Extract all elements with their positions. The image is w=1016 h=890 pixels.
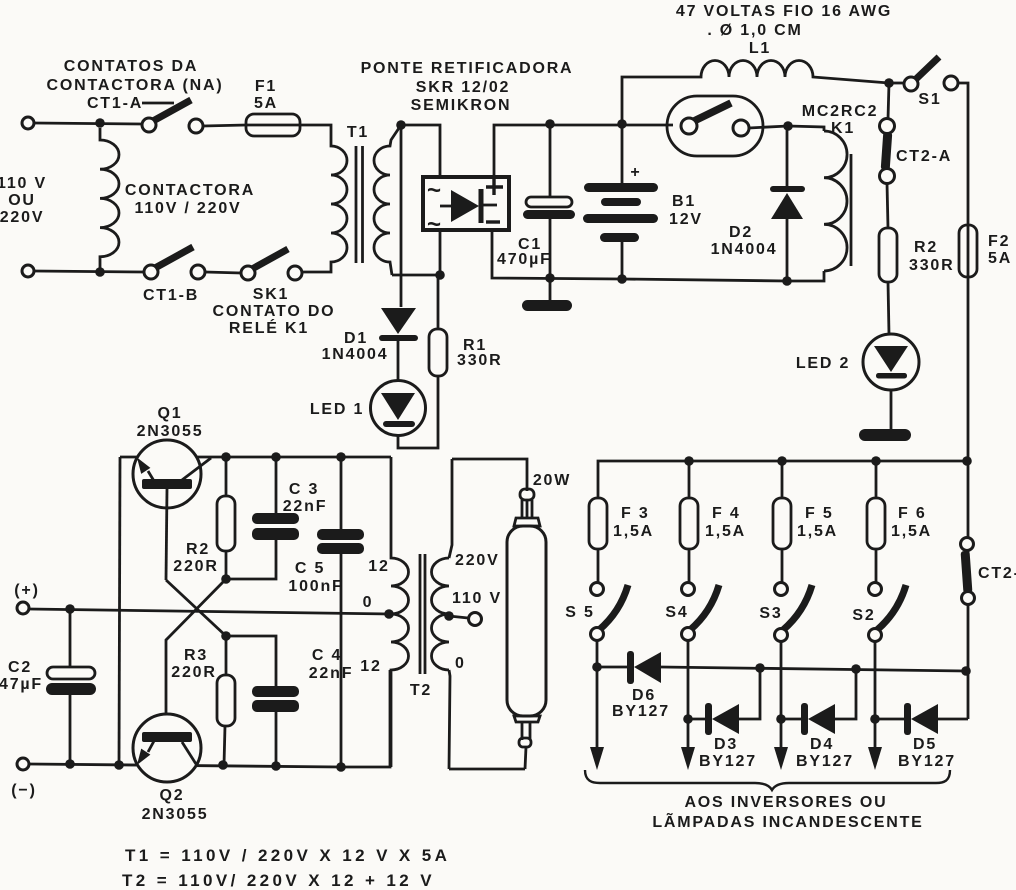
svg-text:110 V: 110 V (0, 175, 47, 192)
node C1 top (545, 119, 555, 129)
fuse F1 (246, 78, 300, 136)
svg-text:MC2RC2: MC2RC2 (802, 103, 879, 120)
brace (585, 770, 950, 790)
svg-text:22nF: 22nF (309, 665, 354, 682)
svg-text:CT1-A: CT1-A (87, 95, 143, 112)
(+) rail to T2 center tap (29, 609, 389, 614)
node C2 top (65, 604, 75, 614)
label 47 VOLTAS FIO 16 AWG / O 1,0CM / L1 (676, 3, 892, 57)
node D4 riser top (851, 664, 861, 674)
svg-text:F 5: F 5 (805, 505, 834, 522)
svg-text:D3: D3 (714, 736, 738, 753)
fuse F2 5A (959, 225, 1012, 277)
svg-text:110 V: 110 V (452, 590, 502, 607)
diode D2 1N4004 (711, 126, 805, 281)
bridge rectifier SKR12/02 (423, 177, 509, 238)
svg-text:330R: 330R (909, 257, 954, 274)
svg-text:D4: D4 (810, 736, 834, 753)
resistor R1 330R (429, 275, 502, 376)
node right vertical crossing (961, 666, 971, 676)
(+) terminal (14, 582, 39, 614)
svg-text:LED 1: LED 1 (310, 401, 364, 418)
svg-text:1,5A: 1,5A (613, 523, 654, 540)
svg-text:(−): (−) (11, 782, 36, 799)
labels T2 taps (360, 552, 502, 699)
arrow output 3 (774, 747, 788, 770)
diode D6 BY127 (612, 651, 670, 720)
diode D1 1N4004 (322, 308, 418, 381)
switch S2 (852, 583, 906, 753)
svg-text:CONTATOS DA: CONTATOS DA (64, 58, 198, 75)
svg-text:0: 0 (363, 594, 374, 611)
svg-text:47µF: 47µF (0, 676, 43, 693)
svg-text:D5: D5 (913, 736, 937, 753)
T2 secondary winding (432, 558, 450, 670)
node R2 bottom (221, 574, 231, 584)
fuse F3 1,5A (589, 498, 654, 583)
svg-text:SK1: SK1 (253, 286, 290, 303)
wire node A to bridge AC top (401, 125, 440, 177)
svg-text:R2: R2 (186, 541, 210, 558)
wire bridge AC bottom lead (439, 229, 442, 275)
svg-text:L1: L1 (749, 40, 771, 57)
transistor Q2 (133, 714, 201, 782)
wire node A down to D1 (400, 125, 403, 307)
svg-text:CT2-B: CT2-B (978, 565, 1016, 582)
svg-text:220V: 220V (0, 209, 44, 226)
svg-text:Q2: Q2 (160, 787, 185, 804)
svg-text:F 3: F 3 (621, 505, 650, 522)
node C3 top (271, 452, 281, 462)
svg-text:Q1: Q1 (158, 405, 183, 422)
wire CT2-B down to D-line (967, 538, 970, 719)
wire bottom terminal to CT1-B (34, 271, 144, 272)
fuse rail (598, 461, 968, 498)
svg-text:LED 2: LED 2 (796, 355, 850, 372)
resistor R3 220R (171, 636, 235, 765)
wire T2 220V to lamp top (452, 459, 527, 491)
node R1 top / bridge AC bottom (435, 270, 445, 280)
LED1 (310, 376, 438, 448)
ground rail from bridge minus to relay coil (492, 229, 824, 281)
svg-text:T2: T2 (410, 682, 432, 699)
switch SK1 (241, 249, 302, 280)
node T2 primary center tap (384, 609, 394, 619)
node C1 bottom on ground rail (545, 273, 555, 283)
resistor R2 220R (173, 457, 235, 579)
label Q1 2N3055 (137, 405, 204, 440)
svg-text:D6: D6 (632, 687, 656, 704)
wire T1 secondary bottom to R1 node (392, 274, 440, 277)
svg-text:CT1-B: CT1-B (143, 287, 199, 304)
wire bridge plus up to +12V rail (494, 125, 673, 177)
node C4 bottom (271, 761, 281, 771)
node S5 output (592, 662, 602, 672)
svg-text:330R: 330R (457, 352, 502, 369)
svg-text:BY127: BY127 (612, 703, 670, 720)
inductor L1 (622, 61, 889, 124)
(-) terminal (11, 758, 36, 799)
fuse F4 1,5A (680, 461, 746, 583)
switch CT1-B (144, 247, 205, 279)
fuse F6 1,5A (867, 461, 932, 583)
svg-text:D1: D1 (344, 330, 368, 347)
T1 primary winding (300, 125, 347, 272)
node C5 bottom (336, 762, 346, 772)
capacitor C3 22nF (226, 457, 327, 579)
svg-text:R3: R3 (184, 647, 208, 664)
svg-text:CONTACTORA: CONTACTORA (125, 182, 255, 199)
T2 core (419, 554, 422, 674)
svg-text:2N3055: 2N3055 (137, 423, 204, 440)
node junction top of contactor coil (95, 118, 105, 128)
label MC2RC2 K1 (802, 103, 879, 137)
capacitor C2 47uF (0, 609, 96, 764)
svg-text:BY127: BY127 (699, 753, 757, 770)
svg-text:S2: S2 (852, 607, 875, 624)
svg-text:T2 = 110V/ 220V X 12 + 12: T2 = 110V/ 220V X 12 + 12 V (122, 871, 435, 890)
node R3 bottom (218, 760, 228, 770)
svg-text:AOS INVERSORES OU: AOS INVERSORES OU (684, 794, 887, 811)
label CONTACTORA 110V / 220V (125, 182, 255, 217)
battery B1 12V (583, 125, 703, 279)
svg-text:. Ø 1,0 CM: . Ø 1,0 CM (707, 22, 802, 39)
svg-text:~: ~ (427, 177, 441, 204)
svg-text:BY127: BY127 (796, 753, 854, 770)
svg-text:SKR 12/02: SKR 12/02 (416, 79, 510, 96)
node D3 riser top (755, 663, 765, 673)
svg-text:100nF: 100nF (288, 578, 343, 595)
node F6 top (871, 456, 881, 466)
svg-text:BY127: BY127 (898, 753, 956, 770)
svg-text:20W: 20W (533, 472, 571, 489)
svg-text:470µF: 470µF (497, 251, 552, 268)
switch CT1-A (142, 100, 203, 133)
contact CT2-B (961, 538, 1016, 605)
terminal 110V bottom (22, 265, 34, 277)
node D2 bottom (782, 276, 792, 286)
node R2 top (221, 452, 231, 462)
wire CT1-B to SK1 (205, 272, 241, 273)
label Q2 2N3055 (142, 787, 209, 823)
top rail (Q1 collector net) (120, 456, 391, 459)
wire top terminal to CT1-A (34, 123, 142, 124)
fuse F5 1,5A (773, 461, 838, 583)
svg-text:RELÉ K1: RELÉ K1 (229, 318, 309, 337)
node D2 top (783, 121, 793, 131)
terminal 110V top (22, 117, 34, 129)
diode D3 BY127 (683, 668, 760, 770)
svg-text:C 5: C 5 (295, 560, 325, 577)
svg-text:(+): (+) (14, 582, 39, 599)
svg-text:F 4: F 4 (712, 505, 741, 522)
diode D4 BY127 (776, 669, 856, 770)
arrow output 4 (868, 747, 882, 770)
relay coil K1 (824, 131, 851, 271)
svg-text:5A: 5A (254, 95, 278, 112)
LED2 (796, 334, 919, 429)
svg-text:1,5A: 1,5A (797, 523, 838, 540)
svg-text:22nF: 22nF (283, 498, 328, 515)
contactor coil CONTACTORA (100, 128, 119, 272)
T2 secondary top lead (449, 459, 452, 558)
T1 core (355, 146, 358, 263)
wire S5 output down to arrow (596, 667, 599, 752)
wire relay contact to D2/K1 coil (749, 126, 824, 131)
svg-text:S3: S3 (759, 605, 782, 622)
relay contact K1 (stadium) (667, 96, 763, 156)
node S1 / CT2-A tap (884, 78, 894, 88)
svg-text:PONTE RETIFICADORA: PONTE RETIFICADORA (361, 60, 574, 77)
svg-text:B1: B1 (672, 193, 696, 210)
node fuse rail right (962, 456, 972, 466)
label CT1-A with pointer dash (87, 95, 174, 112)
node R3 top (221, 631, 231, 641)
svg-text:CT2-A: CT2-A (896, 148, 952, 165)
svg-text:S4: S4 (665, 604, 688, 621)
transformer T2 (391, 457, 482, 769)
cross coupling: R2 node to Q2 base (166, 579, 226, 732)
svg-text:1N4004: 1N4004 (322, 346, 389, 363)
svg-text:C 3: C 3 (289, 481, 319, 498)
node left vertical bottom (114, 760, 124, 770)
svg-text:C2: C2 (8, 659, 32, 676)
svg-text:220R: 220R (173, 558, 218, 575)
wire CT1-A to F1 (203, 125, 246, 126)
bottom rail (Q2 collector net) (29, 670, 390, 767)
node F4 top (684, 456, 694, 466)
svg-text:SEMIKRON: SEMIKRON (411, 97, 512, 114)
arrow output 2 (681, 747, 695, 770)
svg-text:C 4: C 4 (312, 647, 342, 664)
arrow output 1 (590, 747, 604, 770)
wire F2 down to fuse rail (967, 277, 970, 538)
T1 secondary winding (374, 125, 401, 275)
svg-text:2N3055: 2N3055 (142, 806, 209, 823)
svg-text:220V: 220V (455, 552, 500, 569)
svg-text:+: + (630, 164, 641, 181)
svg-text:12: 12 (360, 658, 381, 675)
svg-text:CONTATO DO: CONTATO DO (213, 303, 336, 320)
ground under C1 (522, 278, 572, 311)
svg-text:F1: F1 (255, 78, 277, 95)
T2 primary winding (391, 457, 409, 767)
transistor Q1 (133, 440, 211, 580)
resistor R2 330R (879, 228, 954, 335)
fluorescent lamp 20W (507, 489, 546, 769)
label SK1 CONTATO DO RELE K1 (213, 286, 336, 337)
switch S1 (889, 57, 958, 108)
svg-text:CONTACTORA (NA): CONTACTORA (NA) (47, 77, 224, 94)
switch S3 (759, 583, 812, 753)
svg-text:12V: 12V (669, 211, 703, 228)
svg-text:T1 = 110V / 220V X 12 V: T1 = 110V / 220V X 12 V X 5A (125, 846, 450, 865)
svg-text:1,5A: 1,5A (891, 523, 932, 540)
capacitor C1 470uF (497, 125, 575, 278)
svg-text:R2: R2 (914, 239, 938, 256)
svg-text:12: 12 (368, 558, 389, 575)
svg-text:1,5A: 1,5A (705, 523, 746, 540)
T2 secondary bottom lead (449, 670, 450, 769)
svg-text:S1: S1 (918, 91, 941, 108)
svg-text:T1: T1 (347, 124, 369, 141)
capacitor C5 100nF (288, 457, 364, 767)
svg-text:220R: 220R (171, 664, 216, 681)
contact CT2-A (880, 83, 953, 228)
left vertical emitter rail (119, 457, 120, 765)
node B1 bottom on ground rail (617, 274, 627, 284)
node A: T1 secondary top junction (396, 120, 406, 130)
svg-text:1N4004: 1N4004 (711, 241, 778, 258)
node C5 top (336, 452, 346, 462)
transformer T1 (300, 125, 401, 275)
svg-text:D2: D2 (729, 224, 753, 241)
bottom note T1/T2 (122, 846, 450, 890)
cross coupling: Q1 base to R3 node (166, 580, 226, 636)
switch S5 (565, 583, 628, 668)
wire S1 to F2 (958, 83, 968, 225)
svg-text:S 5: S 5 (565, 604, 594, 621)
svg-text:F2: F2 (988, 233, 1010, 250)
output line with D6 (597, 667, 966, 671)
switch S4 (665, 583, 719, 753)
diode D5 BY127 (870, 703, 968, 770)
svg-text:LÃMPADAS INCANDESCENTE: LÃMPADAS INCANDESCENTE (652, 811, 923, 831)
label PONTE RETIFICADORA SKR 12/02 SEMIKRON (361, 60, 574, 114)
node B1 top / L1 tap (617, 119, 627, 129)
node F5 top (777, 456, 787, 466)
label 110V OU 220V (0, 175, 47, 226)
svg-text:F 6: F 6 (898, 505, 927, 522)
svg-text:110V / 220V: 110V / 220V (135, 200, 242, 217)
label CONTATOS DA CONTACTORA (NA) (47, 58, 224, 94)
ground under LED2 (859, 429, 911, 441)
label AOS INVERSORES OU LAMPADAS INCANDESCENTE (652, 794, 923, 831)
node junction bottom of contactor coil (95, 267, 105, 277)
node C2 bottom (65, 759, 75, 769)
T2 110V tap (449, 616, 468, 618)
svg-text:OU: OU (8, 192, 36, 209)
svg-text:47 VOLTAS FIO 16 AWG: 47 VOLTAS FIO 16 AWG (676, 3, 892, 20)
capacitor C4 22nF (226, 636, 353, 766)
svg-text:0: 0 (455, 655, 466, 672)
wire lamp bottom to T2 0 tap (449, 768, 525, 771)
relay core line (850, 154, 853, 266)
svg-text:5A: 5A (988, 250, 1012, 267)
